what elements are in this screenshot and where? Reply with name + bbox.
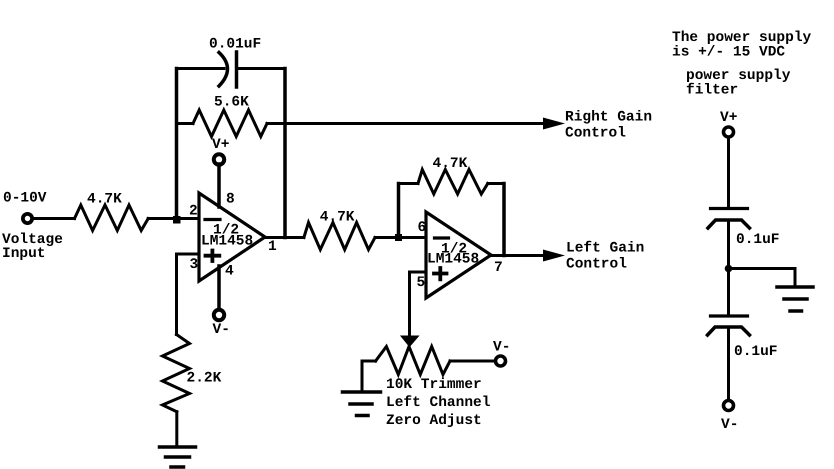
svg-text:V-: V- [493, 340, 510, 356]
svg-text:Control: Control [566, 257, 627, 273]
capacitor C1 straight plate [235, 52, 239, 87]
wire ground branch down [794, 269, 797, 288]
wire C2 to junction [727, 221, 730, 316]
wire pin5 down to trimmer wiper [408, 272, 411, 337]
svg-text:3: 3 [190, 257, 199, 273]
wire U2 pin5 [410, 271, 427, 274]
ground G3 [777, 285, 813, 289]
node pin6 junction [395, 234, 402, 241]
terminal V- U1 [214, 310, 224, 320]
svg-text:0.1uF: 0.1uF [734, 344, 778, 360]
wire pin3 down to R3 [175, 254, 178, 335]
wire U1 output [265, 236, 304, 239]
svg-text:LM1458: LM1458 [201, 234, 253, 250]
svg-text:Left Channel: Left Channel [386, 395, 491, 411]
svg-text:10K Trimmer: 10K Trimmer [386, 377, 482, 393]
ground G2 [343, 390, 381, 394]
U1 plus sign [206, 251, 220, 262]
svg-text:2: 2 [189, 204, 198, 220]
wire U1 pin8 to V+ [217, 164, 221, 207]
capacitor C2 curved plate [708, 220, 750, 228]
trimmer VR1 10K [376, 347, 450, 375]
wire feedback top left [177, 67, 225, 70]
arrow right gain [543, 118, 565, 130]
wire feedback top right [238, 67, 285, 70]
svg-text:0.01uF: 0.01uF [209, 37, 261, 53]
capacitor C2 0.1uF top plate [711, 207, 748, 210]
wire U2 feedback top left [399, 182, 419, 185]
U1 minus sign [205, 218, 220, 221]
wire feedback right branch [283, 69, 287, 238]
power filter: terminal V+ [724, 127, 734, 137]
wire U1 pin4 to V- [217, 266, 221, 309]
svg-text:4: 4 [225, 264, 234, 280]
wire R4 to U2 pin6 [375, 236, 426, 239]
U2 plus sign [434, 268, 447, 279]
svg-text:V-: V- [721, 417, 738, 433]
wire 5.6K to right gain arrow [267, 122, 545, 125]
node pin2 junction [173, 216, 181, 224]
resistor R2 5.6K [193, 110, 267, 137]
svg-text:0.1uF: 0.1uF [736, 232, 780, 248]
svg-text:Input: Input [2, 246, 46, 262]
op-amp U2 triangle [426, 212, 491, 298]
svg-text:LM1458: LM1458 [427, 252, 479, 268]
svg-text:V+: V+ [212, 137, 229, 153]
wire 5.6K left [177, 122, 194, 125]
svg-text:6: 6 [418, 220, 427, 236]
wire input to R1 [34, 217, 75, 220]
wire trimmer left down [361, 361, 364, 392]
svg-text:Zero Adjust: Zero Adjust [386, 413, 482, 429]
resistor R4 4.7K series [304, 223, 375, 250]
wire junction to ground branch [729, 267, 796, 270]
capacitor C1 0.01uF curved plate [219, 53, 228, 87]
ground G1 [160, 445, 196, 449]
resistor R1 4.7K [75, 205, 149, 231]
capacitor C3 curved plate [708, 327, 750, 335]
wire trimmer left [362, 360, 376, 363]
arrow left gain [543, 250, 565, 262]
svg-text:Control: Control [565, 126, 626, 142]
wire R3 to ground [175, 412, 178, 447]
svg-text:0-10V: 0-10V [3, 191, 47, 207]
trimmer wiper arrow [401, 336, 419, 347]
wire C3 to V- [727, 328, 730, 401]
svg-text:7: 7 [494, 260, 503, 276]
U2 minus sign [435, 236, 449, 239]
node power junction [725, 265, 733, 273]
svg-text:5.6K: 5.6K [214, 95, 249, 111]
terminal V- power [724, 401, 734, 411]
svg-text:4.7K: 4.7K [320, 210, 355, 226]
svg-text:4.7K: 4.7K [87, 192, 122, 208]
svg-text:Left Gain: Left Gain [566, 241, 644, 257]
svg-text:5: 5 [417, 275, 426, 291]
svg-text:2.2K: 2.2K [187, 371, 222, 387]
svg-text:is +/- 15 VDC: is +/- 15 VDC [672, 45, 785, 61]
wire U1 pin3 [177, 253, 200, 256]
wire U2 feedback top right [488, 182, 504, 185]
svg-text:V+: V+ [720, 110, 737, 126]
svg-text:8: 8 [226, 192, 235, 208]
wire R1 to op-amp U1 pin2 [148, 217, 199, 220]
wire U2 feedback right branch [502, 184, 506, 256]
wire feedback left branch [175, 69, 179, 219]
wire trimmer right to V- [450, 360, 495, 363]
svg-text:Right Gain: Right Gain [565, 110, 652, 126]
wire U2 output [491, 254, 545, 257]
svg-text:filter: filter [686, 83, 738, 99]
svg-text:V-: V- [213, 322, 230, 338]
resistor R3 2.2K [163, 335, 190, 412]
input terminal J1 0-10V [23, 214, 32, 223]
svg-text:1: 1 [268, 239, 277, 255]
svg-text:4.7K: 4.7K [433, 156, 468, 172]
op-amp U1 triangle [199, 193, 265, 281]
capacitor C3 0.1uF top plate [711, 314, 748, 317]
wire V+ to C2 [727, 137, 730, 207]
terminal V- trimmer [496, 356, 506, 366]
resistor R5 4.7K feedback [418, 170, 488, 195]
terminal V+ U1 [214, 154, 224, 164]
wire U2 feedback left branch [397, 184, 401, 238]
